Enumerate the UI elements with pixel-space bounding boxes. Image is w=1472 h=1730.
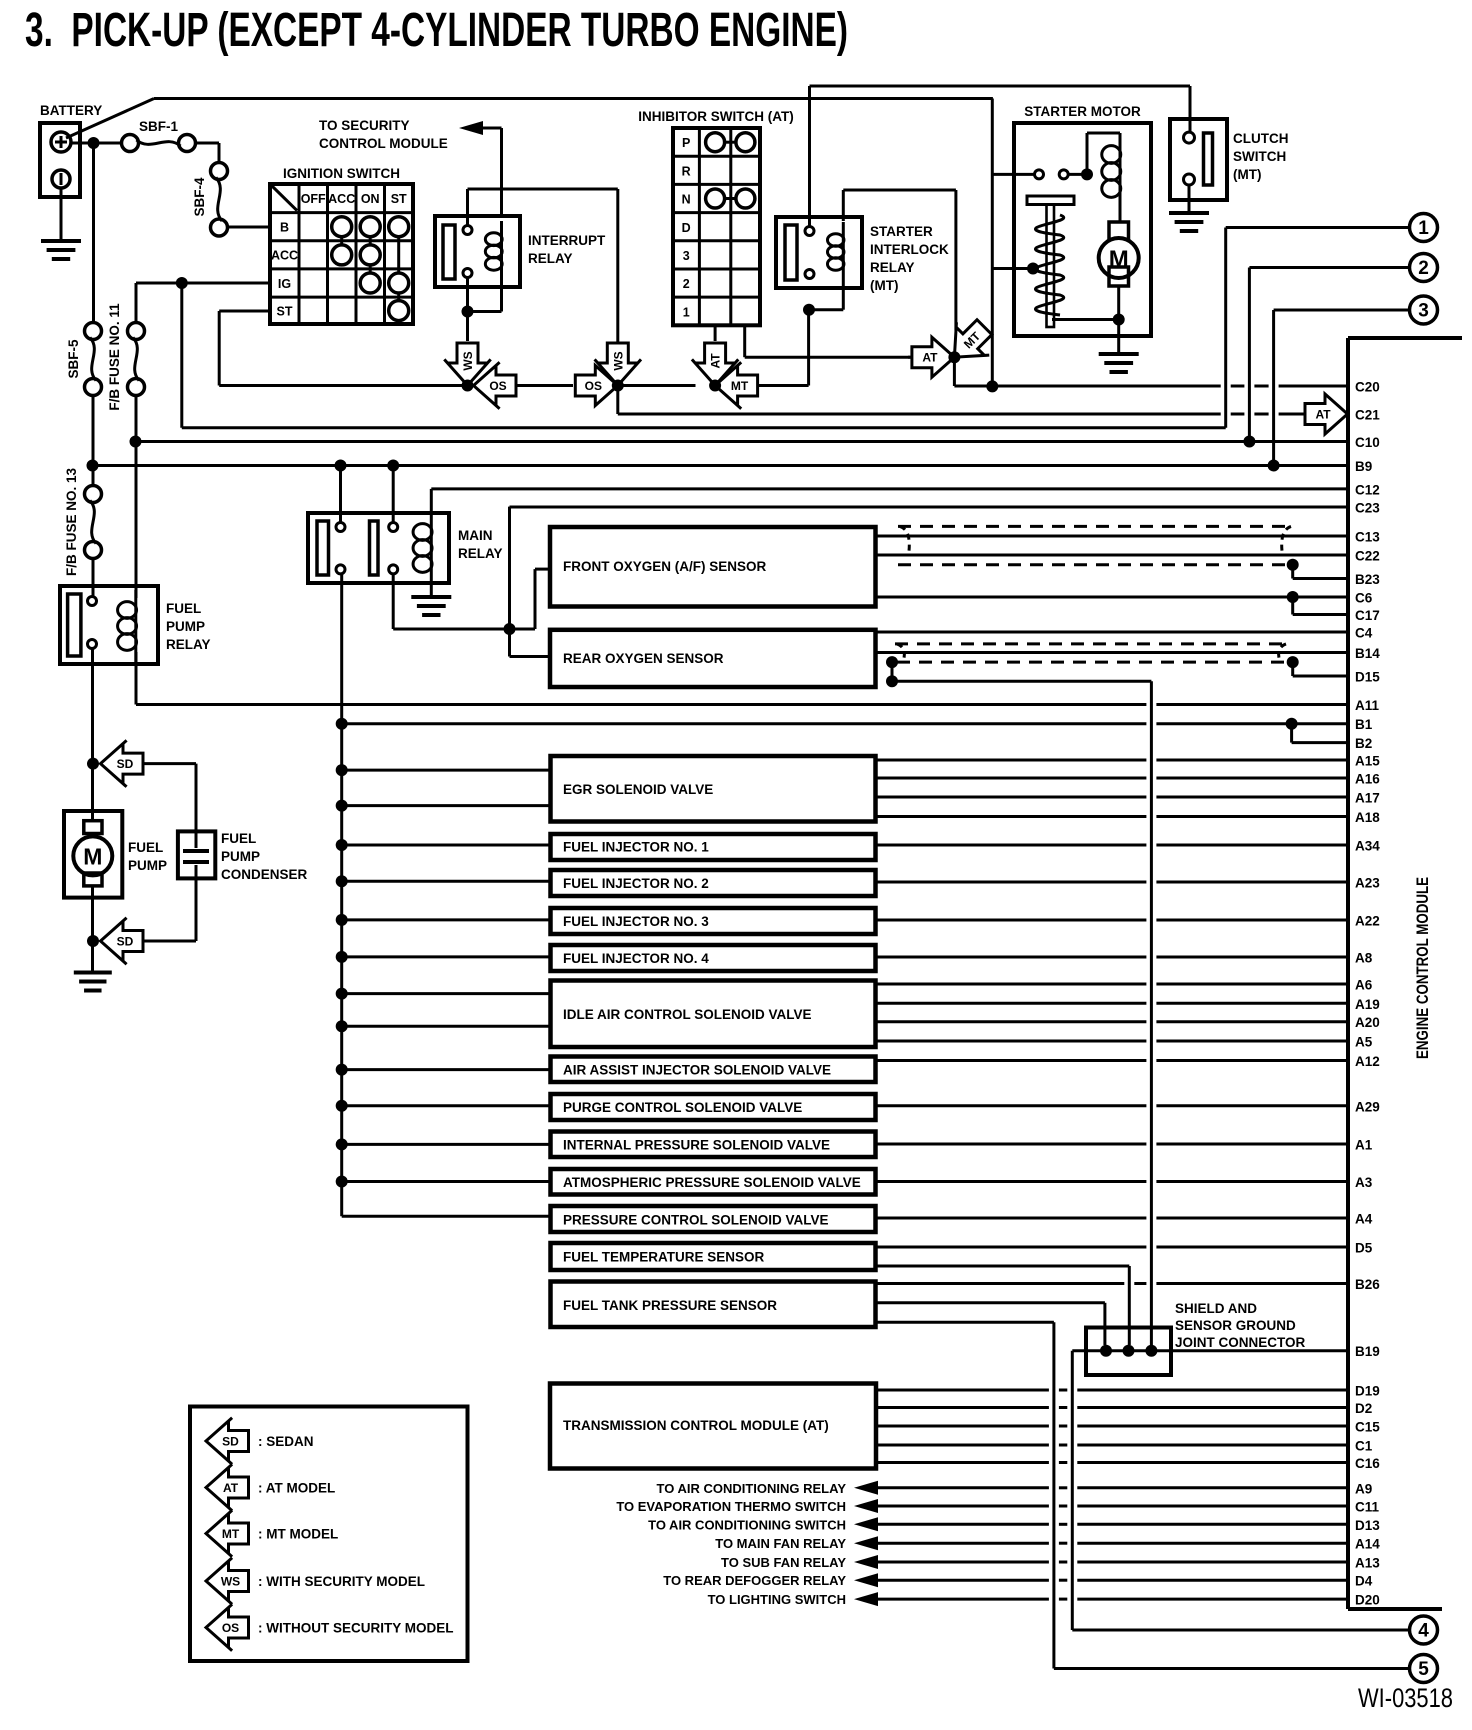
svg-text:SBF-4: SBF-4 — [192, 177, 207, 216]
svg-text:WI-03518: WI-03518 — [1358, 1683, 1453, 1713]
wire C4 — [876, 631, 1349, 634]
node IG junction — [176, 277, 188, 289]
wire fuel injector no.1 box outputs — [876, 844, 1349, 847]
wire battery diagonal to top line — [66, 99, 154, 139]
idle air control solenoid valve box — [551, 981, 876, 1048]
EGR solenoid valve box — [551, 756, 876, 822]
front oxygen sensor — [550, 527, 876, 607]
wire C13 — [876, 535, 1349, 538]
svg-text:FRONT OXYGEN (A/F) SENSOR: FRONT OXYGEN (A/F) SENSOR — [563, 559, 767, 574]
svg-text:CLUTCH: CLUTCH — [1233, 131, 1289, 146]
svg-text:SBF-5: SBF-5 — [66, 339, 81, 378]
label engine control module — [1413, 877, 1432, 1059]
wire B19 — [1072, 1351, 1348, 1630]
wire C6 — [876, 596, 1349, 599]
flag OS 2 — [575, 366, 618, 406]
fuel injector no.2 box — [551, 870, 876, 896]
front shield hook right — [1282, 526, 1291, 551]
svg-text:1: 1 — [1418, 218, 1429, 239]
wire to circle 1 — [182, 228, 1410, 428]
wire junction to SBF-5 — [92, 143, 95, 323]
fuse F/B FUSE NO. 11 — [107, 303, 145, 411]
svg-text:ENGINE CONTROL MODULE: ENGINE CONTROL MODULE — [1413, 877, 1432, 1059]
node C6 dot — [1287, 591, 1299, 603]
fuel pump condenser — [178, 831, 308, 882]
wire to sub fan relay — [721, 1555, 1348, 1570]
arrow to security module — [459, 121, 502, 135]
wire battery ground — [60, 188, 63, 241]
svg-text:MT: MT — [222, 1527, 240, 1541]
wire O2 to front — [510, 569, 551, 629]
svg-text:TO REAR DEFOGGER RELAY: TO REAR DEFOGGER RELAY — [663, 1573, 846, 1588]
svg-text:A1: A1 — [1355, 1138, 1373, 1153]
svg-text:A4: A4 — [1355, 1212, 1373, 1227]
svg-text:2: 2 — [683, 277, 690, 291]
svg-text:A22: A22 — [1355, 914, 1380, 929]
wire fuel temperature sensor box outputs — [876, 1246, 1349, 1249]
svg-text:A8: A8 — [1355, 951, 1373, 966]
wire pressure control solenoid valve box outputs — [876, 1217, 1349, 1220]
svg-text:FUEL: FUEL — [221, 831, 256, 846]
svg-text:A14: A14 — [1355, 1537, 1380, 1552]
wire EGR solenoid valve box outputs — [876, 760, 1349, 817]
svg-text:C4: C4 — [1355, 626, 1373, 641]
svg-text:RELAY: RELAY — [166, 637, 211, 652]
wire front shield bottom — [898, 563, 1293, 566]
svg-text:JOINT CONNECTOR: JOINT CONNECTOR — [1175, 1335, 1306, 1350]
wire junction down to C20 — [953, 357, 956, 386]
fuel temperature sensor box — [551, 1243, 876, 1270]
svg-text:SWITCH: SWITCH — [1233, 149, 1286, 164]
legend box — [190, 1407, 468, 1662]
wire battery plus to SBF-1 — [71, 142, 122, 145]
wire interlock coil top loop — [843, 190, 956, 331]
svg-text:5: 5 — [1418, 1659, 1429, 1680]
svg-text:AIR ASSIST INJECTOR SOLENOID V: AIR ASSIST INJECTOR SOLENOID VALVE — [563, 1063, 831, 1078]
flag AT interlock — [912, 337, 955, 377]
svg-text:D15: D15 — [1355, 670, 1380, 685]
wire to circle 4 — [1072, 1629, 1409, 1632]
svg-text:3: 3 — [1418, 301, 1429, 322]
wire fuel pump relay to SD — [91, 649, 94, 764]
wire air assist injector solenoid valve box outputs — [876, 1059, 1349, 1062]
svg-text:P: P — [682, 136, 690, 150]
svg-text:ST: ST — [277, 305, 293, 319]
wire top line B+ to starter — [154, 97, 993, 100]
connector circle 3 — [1410, 296, 1438, 324]
node rear shield dots — [886, 656, 1299, 687]
wire to main fan relay — [715, 1536, 1348, 1551]
internal pressure solenoid valve box — [551, 1132, 876, 1158]
wire fuel injector no.3 box outputs — [876, 919, 1349, 922]
wire TCM outputs — [876, 1390, 1348, 1463]
wire D15 — [1293, 662, 1348, 676]
connector circle 5 — [1410, 1655, 1438, 1683]
node WS/OS junction 1 — [462, 380, 474, 392]
svg-text:B26: B26 — [1355, 1277, 1380, 1292]
svg-text:A34: A34 — [1355, 839, 1380, 854]
wire security line down to coil — [500, 128, 503, 216]
svg-text:F/B FUSE NO. 13: F/B FUSE NO. 13 — [64, 468, 79, 577]
ground fuel pump — [74, 973, 112, 991]
svg-text:FUEL TEMPERATURE SENSOR: FUEL TEMPERATURE SENSOR — [563, 1250, 765, 1265]
svg-text:FUEL: FUEL — [166, 601, 201, 616]
svg-text:M: M — [1109, 246, 1129, 273]
wire B1 — [342, 722, 1348, 725]
svg-text:SENSOR GROUND: SENSOR GROUND — [1175, 1318, 1296, 1333]
svg-text:TO EVAPORATION THERMO SWITCH: TO EVAPORATION THERMO SWITCH — [616, 1499, 846, 1514]
wire B2 — [1292, 724, 1348, 743]
wire junction2 to C21 — [616, 386, 619, 415]
inhibitor switch — [638, 109, 793, 325]
flag MT inhibitor — [715, 362, 758, 408]
wire fuel pump to ground — [91, 886, 94, 973]
wire fuel temp to joint connector — [876, 1266, 1130, 1345]
svg-text:MAIN: MAIN — [458, 528, 493, 543]
wire to evaporation thermo switch — [616, 1499, 1348, 1514]
svg-text:PURGE CONTROL SOLENOID VALVE: PURGE CONTROL SOLENOID VALVE — [563, 1100, 802, 1115]
svg-text:REAR OXYGEN SENSOR: REAR OXYGEN SENSOR — [563, 651, 724, 666]
connector circle 2 — [1410, 254, 1438, 282]
front shield hook left — [900, 526, 909, 551]
wire fuel tank pressure sensor box outputs — [876, 1282, 1349, 1285]
wire box feeds from bus — [342, 770, 551, 1181]
svg-text:OS: OS — [489, 379, 506, 393]
svg-text:ON: ON — [361, 192, 380, 206]
svg-text:MT: MT — [731, 379, 749, 393]
wire to WS flag 1 — [466, 312, 469, 342]
wire ST row — [219, 311, 270, 386]
fuel pump — [64, 764, 167, 898]
rear shield hook right — [1279, 644, 1286, 658]
wire front shield top — [898, 525, 1293, 528]
svg-text:RELAY: RELAY — [458, 546, 503, 561]
rear oxygen sensor — [550, 630, 876, 687]
title — [25, 4, 848, 57]
flag WS 1 — [444, 343, 490, 386]
svg-text:A9: A9 — [1355, 1481, 1372, 1496]
svg-text:C20: C20 — [1355, 380, 1380, 395]
svg-text:BATTERY: BATTERY — [40, 103, 102, 118]
wire to rear defogger relay — [663, 1573, 1348, 1588]
svg-text:INTERLOCK: INTERLOCK — [870, 242, 949, 257]
node B9 dots — [335, 460, 1280, 472]
label to security control module — [319, 118, 448, 151]
wire fuse11 to C10 node — [135, 396, 138, 442]
svg-text:SD: SD — [117, 757, 134, 771]
svg-text:: SEDAN: : SEDAN — [258, 1434, 314, 1449]
ground clutch — [1169, 213, 1209, 231]
svg-text:WS: WS — [461, 351, 475, 370]
svg-text:STARTER MOTOR: STARTER MOTOR — [1024, 104, 1141, 119]
svg-text:WS: WS — [611, 351, 625, 370]
wire purge control solenoid valve box outputs — [876, 1104, 1349, 1107]
wire interrupt bottom pin down — [468, 278, 502, 312]
ground starter — [1099, 354, 1139, 372]
ground battery — [41, 241, 81, 259]
svg-text:C23: C23 — [1355, 501, 1380, 516]
svg-text:TO AIR CONDITIONING RELAY: TO AIR CONDITIONING RELAY — [657, 1481, 847, 1496]
node inhibitor AT/MT junction — [709, 380, 721, 392]
svg-text:3. PICK-UP (EXCEPT 4-CYLINDER: 3. PICK-UP (EXCEPT 4-CYLINDER TURBO ENGI… — [25, 4, 848, 57]
svg-text:D4: D4 — [1355, 1574, 1373, 1589]
svg-text:A23: A23 — [1355, 876, 1380, 891]
svg-text:OS: OS — [222, 1621, 239, 1635]
node C20 starter dot — [986, 380, 998, 392]
svg-text:C6: C6 — [1355, 591, 1373, 606]
svg-text:WS: WS — [221, 1575, 240, 1589]
svg-text:TO MAIN FAN RELAY: TO MAIN FAN RELAY — [715, 1536, 846, 1551]
svg-text:C12: C12 — [1355, 482, 1380, 497]
svg-text:PUMP: PUMP — [128, 858, 167, 873]
svg-text:B9: B9 — [1355, 459, 1372, 474]
svg-text:(MT): (MT) — [1233, 167, 1261, 182]
node battery junction — [88, 137, 100, 149]
battery — [40, 103, 102, 197]
flag WS 2 — [595, 343, 641, 386]
svg-text:D2: D2 — [1355, 1401, 1372, 1416]
node B9 start — [87, 460, 99, 472]
svg-text:(MT): (MT) — [870, 278, 898, 293]
wire B9 — [93, 464, 1349, 467]
svg-text:TO SUB FAN RELAY: TO SUB FAN RELAY — [721, 1555, 846, 1570]
svg-text:A20: A20 — [1355, 1015, 1380, 1030]
fuse SBF-4 — [192, 163, 228, 237]
svg-text:ACC: ACC — [328, 192, 355, 206]
svg-text:D5: D5 — [1355, 1241, 1373, 1256]
svg-text:FUEL INJECTOR NO. 1: FUEL INJECTOR NO. 1 — [563, 840, 709, 855]
svg-text:STARTER: STARTER — [870, 224, 933, 239]
starter interlock relay — [776, 217, 949, 293]
node interlock bottom junction — [803, 304, 815, 316]
svg-text:ACC: ACC — [271, 249, 298, 263]
fuel pump relay — [60, 586, 211, 664]
wire supply bus — [336, 574, 551, 1216]
svg-text:AT: AT — [922, 351, 938, 365]
fuse SBF-1 — [122, 119, 196, 152]
node joint connector dots — [1100, 1345, 1157, 1357]
wire interlock coil to MT junction — [809, 282, 843, 310]
svg-text:3: 3 — [683, 249, 690, 263]
wire SBF-5 to B9 node — [92, 396, 95, 466]
svg-text:A16: A16 — [1355, 772, 1380, 787]
svg-text:AT: AT — [223, 1481, 239, 1495]
ground main relay — [411, 597, 451, 615]
main relay — [308, 512, 503, 584]
svg-text:SD: SD — [117, 935, 134, 949]
svg-text:A17: A17 — [1355, 791, 1380, 806]
ignition switch — [270, 166, 413, 324]
wire C17 — [1293, 597, 1348, 615]
fuse F/B FUSE NO. 13 — [64, 468, 102, 577]
svg-text:FUEL INJECTOR NO. 2: FUEL INJECTOR NO. 2 — [563, 876, 709, 891]
svg-text:D20: D20 — [1355, 1593, 1380, 1608]
wire ST main run — [219, 384, 695, 387]
wire clutch ground — [1188, 185, 1191, 213]
svg-text:TO LIGHTING SWITCH: TO LIGHTING SWITCH — [708, 1592, 846, 1607]
wire C10 node to fuel pump relay coil — [135, 442, 138, 599]
svg-text:FUEL: FUEL — [128, 840, 163, 855]
wire atmospheric pressure solenoid valve box outputs — [876, 1180, 1349, 1183]
wire fuel tank to joint connector — [876, 1303, 1105, 1345]
purge control solenoid valve box — [551, 1094, 876, 1120]
svg-text:D: D — [682, 221, 691, 235]
wire fuel pump relay coil to A11 — [135, 652, 138, 705]
svg-text:C21: C21 — [1355, 408, 1380, 423]
svg-text:: MT MODEL: : MT MODEL — [258, 1527, 338, 1542]
svg-text:B: B — [280, 221, 289, 235]
wire AT flag line — [908, 356, 910, 359]
legend flag OS — [206, 1604, 454, 1650]
svg-text:INHIBITOR SWITCH (AT): INHIBITOR SWITCH (AT) — [638, 109, 793, 124]
svg-text:TRANSMISSION CONTROL MODULE (A: TRANSMISSION CONTROL MODULE (AT) — [563, 1418, 829, 1433]
svg-text:A15: A15 — [1355, 754, 1380, 769]
svg-text:: AT MODEL: : AT MODEL — [258, 1481, 335, 1496]
legend flag SD — [206, 1418, 314, 1464]
wire fuel injector no.4 box outputs — [876, 956, 1349, 959]
wire rear shield to joint connector — [892, 662, 1151, 1345]
wire condenser to SD2 — [142, 878, 196, 941]
node SD junction 2 — [87, 935, 99, 947]
wire C21 — [618, 413, 1306, 416]
wire idle air control solenoid valve box outputs — [876, 984, 1349, 1041]
svg-text:A11: A11 — [1355, 698, 1380, 713]
wire rear shield top — [895, 642, 1288, 645]
svg-text:PUMP: PUMP — [221, 849, 260, 864]
wire A11 — [136, 703, 1348, 706]
svg-text:SHIELD AND: SHIELD AND — [1175, 1301, 1257, 1316]
flag AT C21 — [1305, 394, 1348, 434]
svg-text:PRESSURE CONTROL SOLENOID VALV: PRESSURE CONTROL SOLENOID VALVE — [563, 1213, 829, 1228]
wire C22 — [876, 554, 1349, 557]
engine control module outline — [1348, 338, 1462, 1609]
wire to circle 5 — [1054, 1667, 1410, 1670]
wire C12 — [431, 489, 1348, 512]
svg-text:: WITH SECURITY MODEL: : WITH SECURITY MODEL — [258, 1574, 425, 1589]
svg-text:B14: B14 — [1355, 646, 1380, 661]
svg-text:A18: A18 — [1355, 810, 1380, 825]
svg-text:OS: OS — [585, 379, 602, 393]
svg-text:IGNITION SWITCH: IGNITION SWITCH — [283, 166, 400, 181]
svg-text:A5: A5 — [1355, 1035, 1373, 1050]
node C10 dot2 — [1243, 436, 1255, 448]
fuel injector no.1 box — [551, 834, 876, 860]
svg-text:C17: C17 — [1355, 608, 1380, 623]
atmospheric pressure solenoid valve box — [551, 1169, 876, 1195]
svg-text:A12: A12 — [1355, 1054, 1380, 1069]
svg-text:EGR SOLENOID VALVE: EGR SOLENOID VALVE — [563, 782, 713, 797]
svg-text:FUEL INJECTOR NO. 4: FUEL INJECTOR NO. 4 — [563, 951, 709, 966]
legend flag AT — [206, 1464, 335, 1510]
wire main relay ground — [430, 584, 433, 597]
svg-text:B1: B1 — [1355, 717, 1373, 732]
svg-text:SBF-1: SBF-1 — [139, 119, 178, 134]
wire to lighting switch — [708, 1592, 1348, 1607]
fuel injector no.4 box — [551, 945, 876, 971]
wire C23 — [510, 507, 1349, 629]
connector circle 1 — [1410, 214, 1438, 242]
node front shield dot — [1287, 559, 1299, 571]
svg-text:B23: B23 — [1355, 572, 1380, 587]
svg-text:C1: C1 — [1355, 1439, 1373, 1454]
wire SBF-1 to SBF-4 — [196, 143, 220, 163]
wire interrupt top pin up-right — [468, 189, 618, 344]
fuel tank pressure sensor box — [551, 1282, 876, 1328]
shield and sensor ground joint connector — [1086, 1301, 1306, 1375]
svg-text:RELAY: RELAY — [870, 260, 915, 275]
svg-text:ATMOSPHERIC PRESSURE SOLENOID: ATMOSPHERIC PRESSURE SOLENOID VALVE — [563, 1175, 861, 1190]
svg-text:CONTROL MODULE: CONTROL MODULE — [319, 136, 448, 151]
svg-text:FUEL INJECTOR NO. 3: FUEL INJECTOR NO. 3 — [563, 914, 709, 929]
wire SD to condenser — [142, 764, 196, 832]
node interrupt junction — [462, 306, 474, 318]
svg-text:C10: C10 — [1355, 435, 1380, 450]
wire to air conditioning switch — [648, 1517, 1348, 1532]
wire IG row to fuse11 — [136, 283, 270, 323]
wire to air conditioning relay — [657, 1481, 1348, 1496]
svg-text:A19: A19 — [1355, 997, 1380, 1012]
svg-text:INTERRUPT: INTERRUPT — [528, 233, 606, 248]
svg-text:D19: D19 — [1355, 1384, 1380, 1399]
svg-text:C11: C11 — [1355, 1500, 1380, 1515]
svg-text:N: N — [682, 193, 691, 207]
svg-text:AT: AT — [1315, 408, 1331, 422]
wire inhibitor col3 down to AT flag line — [745, 325, 911, 357]
svg-text:IG: IG — [278, 277, 291, 291]
wire to circle 2 — [1249, 268, 1409, 442]
connector circle 4 — [1410, 1616, 1438, 1644]
node C10 start — [130, 436, 142, 448]
wire MT flag to interlock — [757, 310, 809, 386]
svg-text:AT: AT — [709, 353, 723, 369]
svg-text:M: M — [83, 844, 102, 870]
wire internal pressure solenoid valve box outputs — [876, 1143, 1349, 1146]
flag SD 2 — [101, 918, 144, 964]
clutch switch — [1170, 119, 1289, 200]
svg-text:B19: B19 — [1355, 1344, 1380, 1359]
wire B23 — [1293, 565, 1348, 579]
svg-text:2: 2 — [1418, 258, 1429, 279]
svg-text:IDLE AIR CONTROL SOLENOID VALV: IDLE AIR CONTROL SOLENOID VALVE — [563, 1007, 812, 1022]
wire fuse13 to fuel pump relay — [92, 559, 95, 602]
svg-text:A3: A3 — [1355, 1175, 1373, 1190]
svg-text:PUMP: PUMP — [166, 619, 205, 634]
wire C20 — [954, 385, 1348, 388]
wire fuel injector no.2 box outputs — [876, 881, 1349, 884]
node WS/OS junction 2 — [612, 380, 624, 392]
svg-text:TO SECURITY: TO SECURITY — [319, 118, 410, 133]
flag SD 1 — [101, 740, 144, 786]
svg-text:INTERNAL PRESSURE SOLENOID VAL: INTERNAL PRESSURE SOLENOID VALVE — [563, 1138, 830, 1153]
legend flag WS — [206, 1558, 425, 1604]
pressure control solenoid valve box — [551, 1206, 876, 1232]
rear shield hook left — [897, 644, 904, 658]
fuel injector no.3 box — [551, 908, 876, 934]
wire top line 1 — [810, 85, 1191, 88]
starter motor — [1014, 104, 1151, 336]
svg-text:ST: ST — [391, 192, 407, 206]
svg-text:CONDENSER: CONDENSER — [221, 867, 308, 882]
svg-text:C22: C22 — [1355, 549, 1380, 564]
wire C10 — [136, 440, 1349, 443]
svg-text:D13: D13 — [1355, 1518, 1380, 1533]
svg-text:: WITHOUT SECURITY MODEL: : WITHOUT SECURITY MODEL — [258, 1621, 454, 1636]
svg-text:RELAY: RELAY — [528, 251, 573, 266]
transmission control module — [550, 1384, 876, 1469]
svg-text:A29: A29 — [1355, 1099, 1380, 1114]
wire interlock top pin up — [808, 86, 811, 227]
flag MT interlock — [938, 311, 1001, 374]
